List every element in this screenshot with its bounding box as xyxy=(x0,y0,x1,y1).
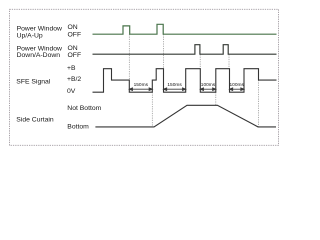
svg-text:ON: ON xyxy=(68,24,78,31)
svg-text:OFF: OFF xyxy=(68,52,82,59)
svg-text:Not Bottom: Not Bottom xyxy=(67,105,101,112)
svg-text:150ms: 150ms xyxy=(134,82,149,88)
svg-text:Down/A-Down: Down/A-Down xyxy=(17,52,61,59)
svg-text:100ms: 100ms xyxy=(201,82,216,88)
svg-text:Up/A-Up: Up/A-Up xyxy=(17,32,43,39)
svg-text:150ms: 150ms xyxy=(167,82,182,88)
svg-text:OFF: OFF xyxy=(68,32,82,39)
svg-text:SFE Signal: SFE Signal xyxy=(16,78,50,85)
svg-text:+B/2: +B/2 xyxy=(67,76,81,83)
svg-text:100ms: 100ms xyxy=(229,82,244,88)
svg-text:Side Curtain: Side Curtain xyxy=(16,116,54,123)
svg-text:0V: 0V xyxy=(67,88,76,95)
svg-text:Bottom: Bottom xyxy=(67,124,89,131)
svg-text:+B: +B xyxy=(67,65,76,72)
